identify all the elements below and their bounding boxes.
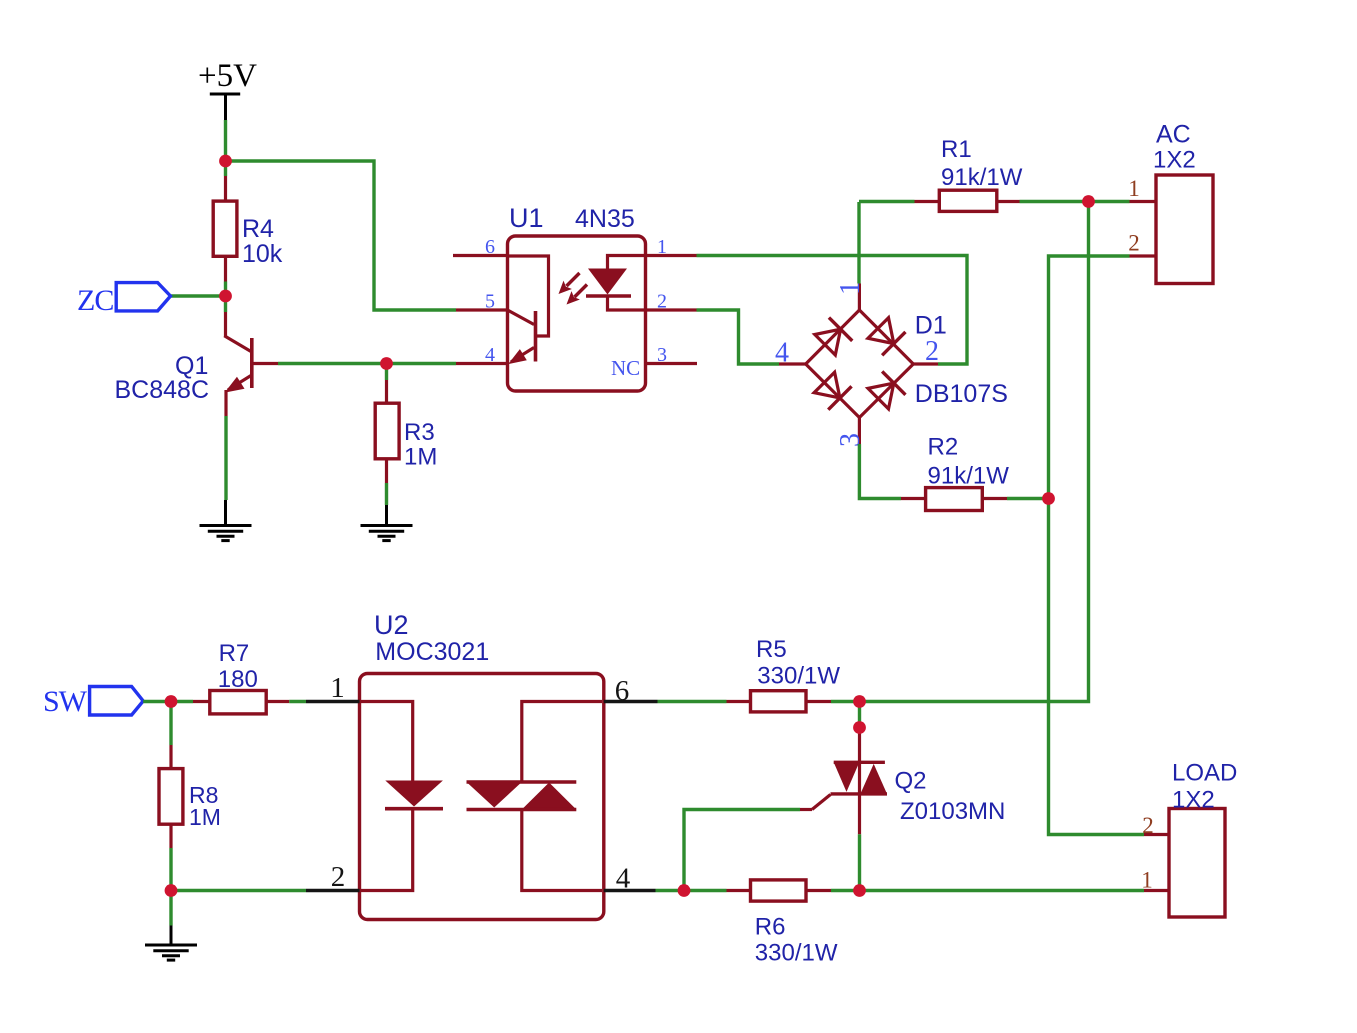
junction dot [219, 155, 232, 168]
svg-text:1X2: 1X2 [1172, 787, 1215, 814]
svg-text:AC: AC [1156, 121, 1191, 149]
U1 pin 4 [456, 344, 508, 366]
AC pin 2 [1128, 231, 1156, 257]
wire R1 left [859, 200, 915, 203]
wire R7 to U2 pin1 [289, 700, 306, 703]
svg-text:1M: 1M [189, 804, 221, 830]
junction dot [165, 695, 178, 708]
wire D1 pin3 to R2 [859, 444, 901, 499]
wire U1 pin1 to D1 pin2 [697, 256, 968, 365]
wire SW node down to R8 [169, 702, 172, 746]
transistor Q2 Z0103MN triac [800, 728, 1005, 835]
svg-text:R3: R3 [404, 419, 435, 446]
connector LOAD 1X2 [1169, 760, 1237, 918]
junction dot [219, 290, 232, 303]
svg-text:R4: R4 [242, 215, 274, 243]
U1 pin 5 [456, 291, 508, 313]
U2 internal LED [361, 702, 443, 891]
junction dot [1082, 195, 1095, 208]
svg-text:1: 1 [835, 281, 866, 295]
wire node to R3 [385, 364, 388, 381]
svg-text:4N35: 4N35 [575, 205, 635, 233]
D1 pin 4 [775, 338, 806, 369]
junction dot [853, 884, 866, 897]
diode D1 top-right [867, 316, 906, 355]
svg-text:Z0103MN: Z0103MN [900, 798, 1005, 825]
resistor R2 [901, 434, 1009, 511]
U2 pin 1 [306, 672, 360, 704]
wire U1 pin2 to D1 pin4 [697, 310, 780, 364]
svg-text:330/1W: 330/1W [757, 663, 840, 690]
power symbol +5V [198, 58, 257, 120]
D1 pin 1 [835, 281, 866, 310]
svg-text:1: 1 [1128, 176, 1140, 201]
svg-text:R2: R2 [928, 434, 959, 461]
svg-text:+5V: +5V [198, 58, 257, 94]
port ZC [77, 283, 171, 317]
wire Q2 bottom to node [858, 834, 861, 890]
wire Q1 base / R3 / U1 pin4 [278, 362, 456, 365]
U1 light arrows [559, 273, 588, 305]
junction dot [853, 695, 866, 708]
U1 pin 3 NC [611, 344, 697, 380]
wire R5 to node [831, 700, 866, 703]
wire R8 to ground node [169, 848, 172, 926]
svg-text:BC848C: BC848C [115, 376, 210, 404]
junction dot [1042, 492, 1055, 505]
U2 pin 2 [306, 861, 360, 893]
svg-text:1X2: 1X2 [1153, 147, 1196, 174]
U2 pin 4 [604, 863, 656, 895]
svg-text:4: 4 [485, 344, 495, 366]
svg-text:R7: R7 [219, 640, 250, 667]
U1 pin 2 [646, 291, 697, 313]
svg-text:SW: SW [43, 685, 88, 718]
svg-text:91k/1W: 91k/1W [941, 164, 1023, 191]
svg-text:1: 1 [657, 236, 667, 258]
resistor R4 [213, 176, 283, 282]
wire R3 to ground [385, 483, 388, 505]
svg-text:U2: U2 [374, 610, 409, 640]
svg-text:330/1W: 330/1W [755, 940, 838, 967]
svg-text:Q2: Q2 [895, 768, 927, 795]
svg-text:91k/1W: 91k/1W [928, 463, 1010, 490]
wire U2 pin4 to R6 [656, 889, 727, 892]
wire R6 to LOAD pin1 [831, 889, 1144, 892]
LOAD pin 2 [1142, 813, 1169, 838]
svg-text:R6: R6 [755, 914, 786, 941]
ground [361, 526, 413, 541]
diode D1 bottom-left [813, 371, 852, 410]
svg-text:10k: 10k [242, 240, 283, 268]
junction dot [165, 884, 178, 897]
svg-text:DB107S: DB107S [915, 380, 1008, 408]
svg-text:MOC3021: MOC3021 [375, 638, 489, 666]
diode D1 top-left [813, 318, 852, 357]
connector AC 1X2 [1153, 121, 1213, 284]
wire +5V to junction [224, 120, 227, 162]
svg-text:4: 4 [775, 338, 789, 369]
U1 pin 1 [646, 236, 697, 258]
resistor R1 [915, 136, 1023, 211]
svg-text:ZC: ZC [77, 284, 113, 317]
svg-text:6: 6 [615, 675, 630, 707]
wire R2 to vertical [1007, 497, 1049, 500]
resistor R7 [193, 640, 289, 714]
svg-text:2: 2 [1128, 231, 1140, 256]
svg-text:4: 4 [616, 863, 631, 895]
wire junction to U1 pin 5 [226, 161, 457, 310]
ground [200, 526, 252, 541]
diode D1 bottom-right [867, 371, 906, 410]
svg-text:R5: R5 [756, 636, 787, 663]
wire node down to Q2 [858, 702, 861, 728]
optocoupler U2 MOC3021 [360, 610, 604, 920]
svg-text:5: 5 [485, 291, 495, 313]
U1 pin 6 [453, 236, 508, 258]
wire R4 to node ZC [224, 282, 227, 313]
svg-text:2: 2 [331, 861, 346, 893]
svg-text:2: 2 [1142, 813, 1154, 838]
port SW [43, 685, 143, 718]
U1 internal LED [586, 256, 644, 311]
svg-text:2: 2 [925, 336, 939, 367]
svg-text:1M: 1M [404, 444, 437, 471]
junction dot [380, 357, 393, 370]
svg-text:U1: U1 [509, 203, 544, 233]
svg-text:180: 180 [218, 666, 258, 693]
AC pin 1 [1128, 176, 1156, 202]
svg-text:LOAD: LOAD [1172, 760, 1237, 787]
resistor R8 [159, 745, 221, 848]
wire U2 pin6 to R5 [658, 700, 727, 703]
U2 internal triac [467, 702, 603, 891]
wire R1 to AC pin1 [1020, 200, 1130, 203]
diode bridge D1 DB107S [806, 310, 1008, 418]
svg-text:R1: R1 [941, 136, 972, 163]
svg-text:6: 6 [485, 236, 495, 258]
U1 internal phototransistor [508, 256, 549, 363]
wire Q2 gate [684, 810, 800, 891]
junction dot [853, 721, 866, 734]
svg-text:3: 3 [835, 433, 866, 447]
junction dot [678, 884, 691, 897]
wire junction down to R4 [224, 161, 227, 176]
svg-text:NC: NC [611, 356, 640, 380]
resistor R6 [727, 880, 838, 967]
LOAD pin 1 [1141, 868, 1169, 893]
op-amp U1 4N35 optocoupler [508, 203, 646, 391]
svg-text:1: 1 [330, 672, 345, 704]
wire D1 pin1 up to AC line [857, 202, 860, 284]
transistor Q1 BC848C [115, 312, 279, 416]
ground [145, 945, 197, 960]
wire node to U2 pin2 [171, 889, 306, 892]
svg-text:3: 3 [657, 344, 667, 366]
wire AC pin2 down to LOAD pin2 [1049, 256, 1145, 835]
svg-text:1: 1 [1141, 868, 1153, 893]
D1 pin 3 [835, 418, 866, 448]
svg-text:2: 2 [657, 291, 667, 313]
wire Q1 emitter to ground [224, 416, 227, 500]
resistor R3 [375, 380, 437, 483]
wire SW to R7 [143, 700, 193, 703]
wire ZC port to node [171, 294, 226, 297]
wire AC pin1 node down to R5 node [866, 202, 1089, 702]
U2 pin 6 [604, 675, 658, 707]
resistor R5 [727, 636, 841, 712]
D1 pin 2 [913, 336, 939, 367]
